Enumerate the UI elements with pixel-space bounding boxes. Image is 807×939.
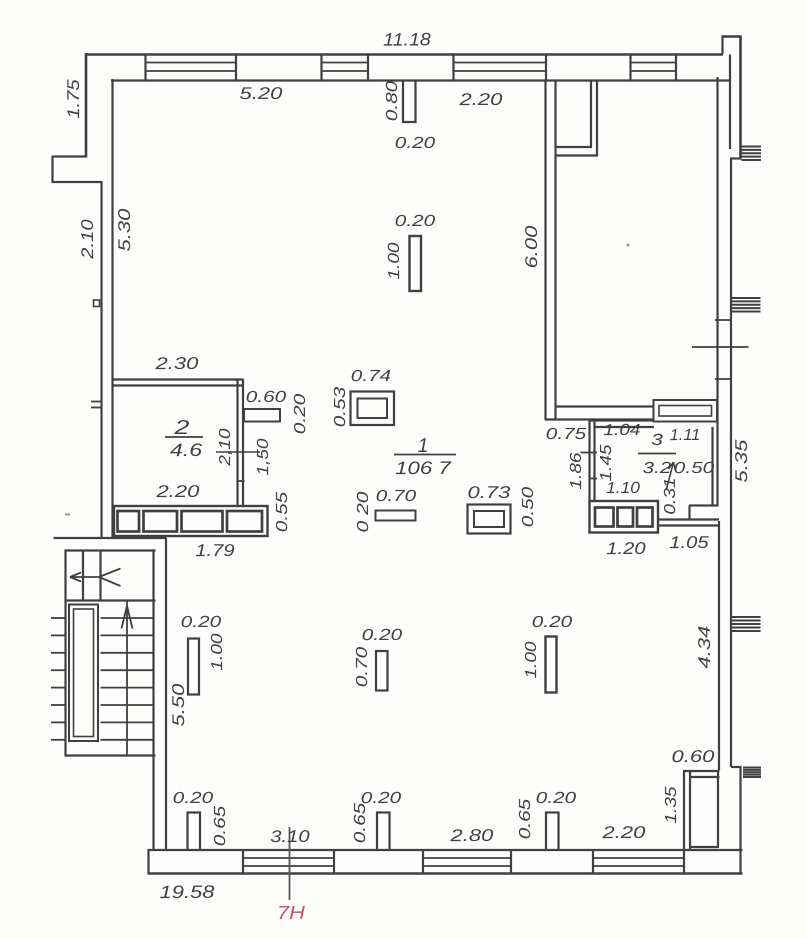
svg-text:0.20: 0.20: [362, 627, 403, 644]
survey line 7H: [289, 827, 291, 900]
stair cell divider a: [82, 551, 84, 602]
svg-text:2.20: 2.20: [155, 482, 200, 501]
shaft room inner: [690, 846, 719, 848]
stair block right / wall: [152, 550, 154, 851]
wall top-right notch: [721, 36, 723, 55]
radiator R1: [742, 146, 762, 148]
svg-text:0.53: 0.53: [332, 387, 349, 428]
window W1 (top wall): [144, 54, 146, 82]
svg-text:0.70: 0.70: [354, 647, 371, 688]
room2 dim line: [216, 451, 260, 453]
svg-text:0.65: 0.65: [517, 799, 534, 840]
svg-text:0 20: 0 20: [355, 491, 372, 532]
svg-text:19.58: 19.58: [159, 882, 214, 902]
svg-text:0.74: 0.74: [351, 368, 392, 385]
wall left step cap: [54, 155, 88, 157]
svg-text:106 7: 106 7: [395, 458, 452, 478]
column C7: [188, 639, 199, 695]
left wall tick 2: [91, 407, 102, 409]
column C2: [468, 505, 511, 534]
column C3: [410, 236, 422, 291]
svg-text:1.35: 1.35: [663, 786, 680, 823]
wall right outer mid: [730, 159, 732, 768]
wall left-lower inner: [165, 538, 167, 851]
window W7 (bottom wall): [592, 849, 594, 875]
stair block top: [65, 549, 156, 551]
stair top boundary: [54, 537, 167, 539]
room2 wall right: [236, 380, 238, 506]
svg-text:1.86: 1.86: [568, 452, 585, 489]
shaft room top: [683, 770, 720, 772]
cupboard (room3): [590, 501, 659, 533]
svg-text:0.20: 0.20: [532, 614, 573, 631]
svg-text:0.55: 0.55: [274, 492, 291, 533]
arrow 0.31: [667, 462, 674, 489]
shaft room left: [683, 770, 685, 850]
column C6: [546, 637, 557, 693]
pier T1 (top wall): [402, 81, 404, 123]
svg-text:2.80: 2.80: [449, 826, 494, 845]
svg-text:0.20: 0.20: [395, 213, 436, 230]
svg-text:0.20: 0.20: [292, 394, 309, 435]
room3 wall right: [711, 427, 713, 507]
svg-text:5.20: 5.20: [239, 84, 283, 103]
svg-text:3: 3: [651, 432, 663, 449]
svg-text:0.20: 0.20: [536, 790, 577, 807]
svg-text:5.30: 5.30: [115, 208, 134, 252]
svg-text:1,50: 1,50: [255, 438, 272, 475]
wall bottom outer: [148, 872, 743, 875]
pier P3 (bottom wall): [545, 812, 547, 851]
room3 step: [689, 504, 719, 506]
svg-text:2.10: 2.10: [78, 219, 97, 260]
window W4 (top wall): [629, 54, 631, 82]
stair block bottom: [65, 754, 156, 756]
cupboard cell 6: [182, 511, 223, 532]
svg-text:0.60: 0.60: [246, 389, 287, 406]
cupboard (room2): [114, 506, 268, 536]
cupboard cell 5: [144, 511, 178, 532]
cupboard cell 7: [227, 511, 262, 532]
stair cell divider b: [99, 551, 101, 602]
radiator R4: [743, 767, 761, 769]
svg-text:1.00: 1.00: [209, 633, 226, 670]
window W6 (bottom wall): [422, 849, 424, 875]
radiator R2: [732, 297, 761, 299]
cupboard cell 1: [595, 508, 614, 527]
left wall tick 1: [91, 401, 102, 403]
column C5: [376, 651, 388, 691]
room2 wall top: [112, 378, 244, 380]
svg-text:0.73: 0.73: [467, 483, 511, 502]
svg-text:1.79: 1.79: [195, 541, 235, 560]
svg-text:7H: 7H: [277, 903, 305, 924]
wall right bottom step: [731, 766, 742, 768]
section line: [692, 346, 749, 348]
window W5 (bottom wall): [242, 849, 244, 875]
svg-text:2.20: 2.20: [601, 823, 646, 842]
svg-text:0.65: 0.65: [352, 803, 369, 844]
svg-text:2,10: 2,10: [217, 428, 234, 467]
room3 threshold: [659, 518, 720, 520]
column C4: [376, 511, 416, 521]
room6 wall bottom: [556, 405, 655, 407]
svg-text:3.2: 3.2: [643, 460, 672, 477]
svg-text:4.34: 4.34: [695, 626, 714, 669]
stair steps (adjacent flight): [51, 617, 66, 619]
svg-text:0.20: 0.20: [181, 614, 222, 631]
speck b: [65, 514, 70, 516]
room3 wall tick 2: [589, 478, 597, 480]
wall top inner: [111, 79, 730, 81]
room3 wall tick 1: [581, 452, 598, 454]
svg-text:0.65: 0.65: [212, 806, 229, 847]
svg-text:2.30: 2.30: [154, 354, 199, 373]
duct (room6): [590, 80, 592, 148]
svg-text:0.70: 0.70: [376, 488, 417, 505]
wall right tick 1: [715, 319, 730, 321]
svg-text:0.75: 0.75: [546, 426, 587, 443]
svg-text:5.50: 5.50: [169, 683, 188, 727]
wall right inner face: [716, 77, 718, 507]
room6 wall left: [544, 80, 546, 420]
window W2 (top wall): [320, 54, 322, 82]
stair up arrow: [122, 606, 128, 629]
wall right jog cap: [730, 157, 742, 159]
wall bottom inner: [148, 849, 743, 851]
svg-text:0.60: 0.60: [671, 747, 715, 766]
svg-text:5.35: 5.35: [732, 439, 751, 483]
svg-text:1.75: 1.75: [64, 79, 83, 119]
room3 wall left: [588, 420, 590, 502]
radiator R3: [732, 616, 761, 618]
cupboard cell 3: [637, 508, 653, 527]
pier P2 (bottom wall): [376, 812, 378, 851]
svg-text:0.50: 0.50: [674, 460, 715, 477]
window W3 (top wall): [452, 54, 454, 82]
stair well outer: [69, 605, 98, 742]
svg-text:1.11: 1.11: [670, 427, 701, 444]
wall right tick 2: [715, 378, 730, 380]
room2 wall tick: [237, 480, 245, 482]
wall bottom left cap: [147, 849, 149, 875]
stair steps: [101, 617, 154, 619]
svg-text:2.20: 2.20: [458, 90, 503, 109]
wall left inner: [111, 79, 113, 539]
speck a: [627, 244, 630, 247]
svg-text:1.00: 1.00: [386, 242, 403, 279]
pier P1 (bottom wall): [186, 812, 188, 851]
svg-text:0.50: 0.50: [520, 487, 537, 528]
wall left second line: [100, 181, 102, 539]
cupboard cell 2: [618, 508, 634, 527]
svg-text:0.31: 0.31: [662, 477, 679, 514]
door opening D1: [654, 400, 718, 422]
room3 label line: [638, 453, 676, 455]
cupboard cell 4: [118, 511, 140, 532]
svg-text:1.00: 1.00: [523, 641, 540, 678]
svg-text:1: 1: [418, 435, 429, 457]
left wall mark: [94, 300, 100, 307]
stair down arrow: [70, 576, 99, 578]
room3 wall top: [590, 419, 655, 421]
stair block left: [64, 550, 66, 757]
svg-text:0.80: 0.80: [384, 81, 401, 122]
wall left stub: [51, 156, 53, 184]
svg-text:3.10: 3.10: [270, 827, 310, 846]
svg-text:0.20: 0.20: [395, 135, 436, 152]
svg-text:6.00: 6.00: [522, 225, 541, 269]
room1 label line: [394, 454, 456, 456]
wall right inner upper: [729, 55, 731, 150]
svg-text:1.20: 1.20: [606, 539, 646, 558]
wall right inner lower: [718, 521, 720, 770]
svg-text:1.05: 1.05: [669, 533, 709, 552]
svg-text:11.18: 11.18: [383, 29, 431, 49]
room2 pier: [244, 409, 280, 422]
stair flight center line: [126, 601, 128, 756]
stair well inner: [74, 609, 94, 737]
svg-text:2: 2: [173, 417, 189, 439]
column C1: [351, 392, 395, 426]
svg-text:0.20: 0.20: [173, 790, 214, 807]
wall left outer: [85, 53, 88, 158]
svg-text:1.04: 1.04: [603, 422, 640, 439]
svg-text:1.45: 1.45: [598, 444, 615, 481]
room2 label line: [165, 436, 203, 438]
wall top outer: [86, 53, 723, 56]
svg-text:4.6: 4.6: [170, 440, 204, 460]
stair landing line: [65, 599, 156, 601]
